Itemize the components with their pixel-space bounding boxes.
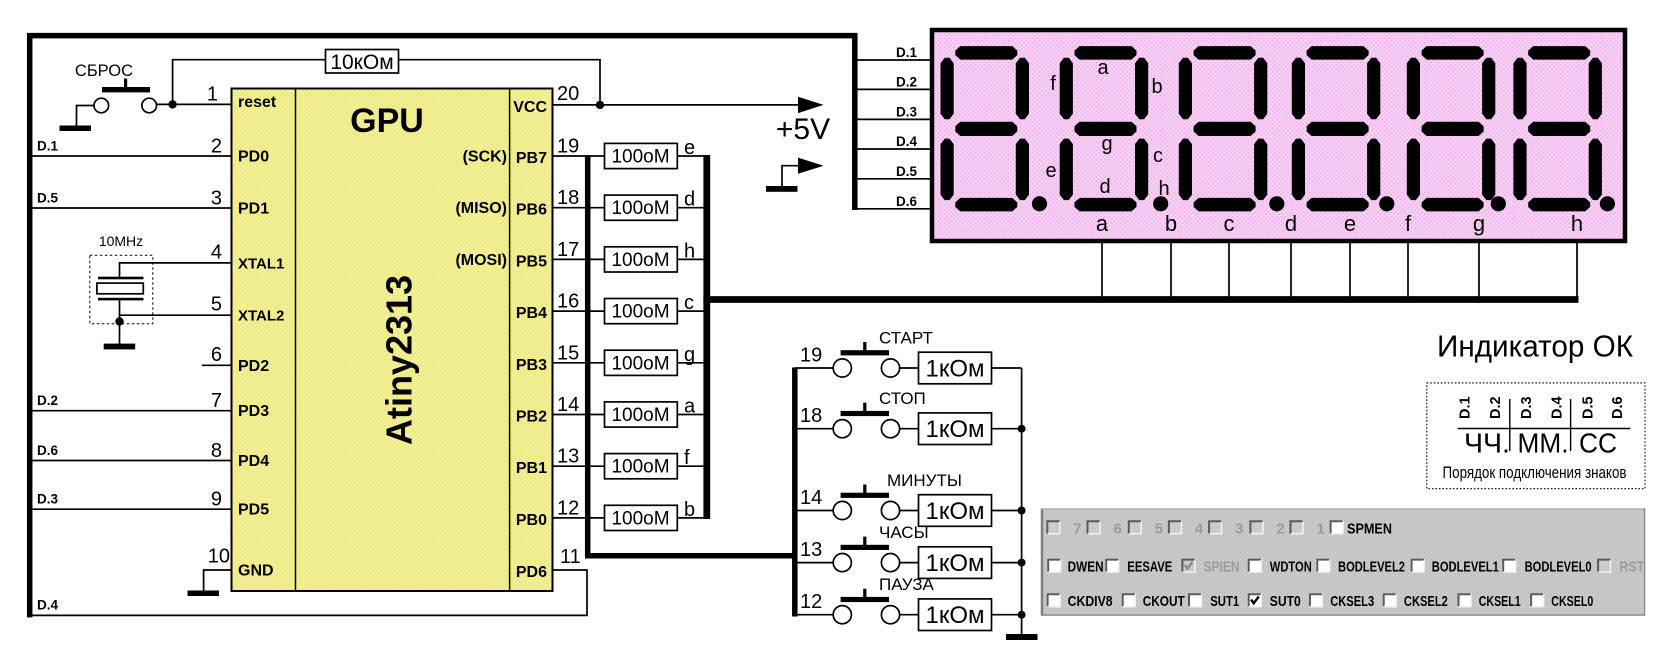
pin number 12 (557, 497, 579, 519)
label display D.1 (896, 45, 918, 60)
wire resistor СТОП to common (992, 428, 1022, 430)
svg-text:15: 15 (557, 342, 579, 364)
pushbutton ЧАСЫ bar (841, 537, 889, 550)
svg-text:WDTON: WDTON (1270, 559, 1312, 576)
label segment h digit2 (1158, 178, 1169, 200)
checkbox SUT1 (1188, 593, 1239, 610)
pin name PB1 (516, 460, 547, 477)
svg-text:c: c (1224, 211, 1235, 236)
svg-text:D.5: D.5 (37, 191, 59, 206)
svg-text:Индикатор ОК: Индикатор ОК (1437, 330, 1633, 364)
svg-text:D.3: D.3 (896, 104, 918, 119)
wire display pin d (1290, 243, 1292, 300)
svg-text:3: 3 (211, 188, 222, 210)
wire display pin a (1101, 243, 1103, 300)
wire bus to button ПАУЗА (795, 614, 834, 616)
svg-text:7: 7 (211, 390, 222, 412)
svg-text:PB1: PB1 (516, 460, 547, 477)
svg-text:19: 19 (557, 136, 579, 158)
checkbox fuse bit 3 (disabled) (1208, 520, 1243, 537)
svg-text:(MOSI): (MOSI) (455, 252, 507, 269)
svg-text:ЧЧ.: ЧЧ. (1464, 428, 1510, 459)
svg-text:CKSEL2: CKSEL2 (1404, 593, 1448, 610)
svg-text:16: 16 (557, 291, 579, 313)
checkbox EESAVE (1105, 559, 1172, 576)
svg-text:D.1: D.1 (37, 139, 59, 154)
wire net D.6 (31, 460, 232, 462)
svg-text:h: h (1571, 211, 1583, 236)
label net D.5 (37, 191, 59, 206)
label display D.3 (896, 104, 918, 119)
wire resistor pin16 to segment bus (677, 310, 707, 312)
wire display input D.5 (855, 178, 930, 180)
svg-text:СТОП: СТОП (879, 389, 926, 408)
svg-text:SPIEN: SPIEN (1204, 559, 1240, 576)
label display pin a (1096, 211, 1109, 236)
ground below crystal (104, 344, 136, 350)
pin number 3 (211, 188, 222, 210)
pin number 14 (557, 394, 579, 416)
wire net D.3 (31, 508, 232, 510)
fuse panel background (1041, 508, 1645, 615)
junction node СТОП common (1018, 425, 1026, 433)
svg-text:GND: GND (238, 563, 274, 580)
pin number 12 button (800, 591, 822, 613)
display digit 5 (1407, 46, 1506, 211)
pushbutton СТАРТ left contact (833, 359, 851, 377)
wire pin13 to resistor (553, 465, 605, 467)
svg-text:2: 2 (1276, 520, 1284, 537)
svg-text:1: 1 (1317, 520, 1325, 537)
pin name reset (238, 94, 277, 111)
wire buttons left bus (792, 368, 798, 617)
label segment g digit2 (1101, 133, 1112, 155)
svg-text:100оМ: 100оМ (611, 457, 669, 478)
pin number 13 button (800, 539, 822, 561)
pin name VCC (513, 99, 547, 116)
table vertical dividers (1510, 399, 1571, 451)
svg-text:d: d (1099, 176, 1110, 198)
label display pin g (1473, 211, 1485, 236)
svg-text:f: f (1050, 73, 1056, 95)
svg-text:10кОм: 10кОм (330, 51, 393, 74)
svg-text:BODLEVEL2: BODLEVEL2 (1338, 559, 1405, 576)
pin number 9 (211, 489, 222, 511)
wire resistor pin13 to segment bus (677, 465, 707, 467)
wire button МИНУТЫ to resistor (900, 510, 919, 512)
display digit 1 (941, 46, 1048, 211)
power return arrow symbol (782, 158, 824, 187)
wire bus to button МИНУТЫ (795, 510, 834, 512)
svg-text:12: 12 (800, 591, 822, 613)
pin number 15 (557, 342, 579, 364)
svg-text:CKDIV8: CKDIV8 (1068, 593, 1113, 610)
crystal dashed outline (90, 255, 153, 324)
label table D.1 (1457, 396, 1473, 419)
svg-text:a: a (684, 396, 696, 418)
svg-text:ММ.: ММ. (1518, 428, 1569, 459)
svg-text:1кОм: 1кОм (925, 602, 984, 629)
svg-text:4: 4 (1195, 520, 1204, 537)
svg-text:PB0: PB0 (516, 512, 547, 529)
svg-text:19: 19 (800, 345, 822, 367)
checkbox SUT0 (1248, 593, 1301, 610)
svg-text:D.3: D.3 (1519, 396, 1535, 419)
pushbutton СТОП bar (841, 403, 889, 416)
svg-text:D.2: D.2 (896, 74, 917, 89)
label display pin d (1285, 211, 1297, 236)
label button МИНУТЫ (887, 471, 962, 490)
svg-text:12: 12 (557, 497, 579, 519)
wire pin14 to resistor (553, 414, 605, 416)
pin name PB3 (516, 357, 547, 374)
pin number 4 (211, 242, 222, 264)
checkbox RSTDISBL (1597, 559, 1674, 576)
svg-text:d: d (1285, 211, 1297, 236)
junction node МИНУТЫ common (1018, 507, 1026, 515)
resistor 100oM pin19 (605, 143, 678, 168)
pin name PB0 (516, 512, 547, 529)
svg-text:13: 13 (557, 446, 579, 468)
svg-text:14: 14 (557, 394, 579, 416)
resistor 100oM pin12 (605, 505, 678, 530)
pin name PD1 (238, 201, 269, 218)
svg-text:4: 4 (211, 242, 222, 264)
label display D.6 (896, 194, 918, 209)
svg-text:CKSEL3: CKSEL3 (1330, 593, 1374, 610)
svg-text:PB3: PB3 (516, 357, 547, 374)
svg-text:18: 18 (800, 405, 822, 427)
svg-text:2: 2 (211, 136, 222, 158)
display HG1 body (932, 30, 1625, 241)
svg-text:D.1: D.1 (1457, 396, 1473, 419)
checkbox CKOUT (1122, 593, 1185, 610)
svg-text:BODLEVEL0: BODLEVEL0 (1525, 559, 1592, 576)
svg-text:1кОм: 1кОм (925, 356, 984, 383)
checkbox fuse bit 6 (disabled) (1087, 520, 1122, 537)
svg-text:МИНУТЫ: МИНУТЫ (887, 471, 962, 490)
svg-text:a: a (1096, 211, 1109, 236)
svg-text:17: 17 (557, 239, 579, 261)
svg-text:PD2: PD2 (238, 358, 269, 375)
wire pin5 XTAL2 (120, 300, 232, 343)
wire display input D.1 (855, 59, 930, 61)
svg-text:g: g (1473, 211, 1485, 236)
svg-text:11: 11 (560, 546, 581, 568)
svg-text:СБРОС: СБРОС (75, 62, 133, 80)
label GPU (350, 102, 424, 140)
pin number 5 (211, 294, 222, 316)
label segment c (684, 292, 694, 314)
resistor 100oM pin15 (605, 350, 678, 375)
crystal top plate (98, 277, 144, 280)
wire pin4 XTAL1 (120, 263, 232, 277)
checkbox BODLEVEL1 (1411, 559, 1499, 576)
svg-text:СТАРТ: СТАРТ (879, 329, 933, 348)
label table D.4 (1550, 396, 1566, 419)
pin number 7 (211, 390, 222, 412)
svg-text:D.2: D.2 (1488, 396, 1504, 419)
resistor 1kOm СТАРТ (919, 352, 992, 384)
ground buttons common (1006, 634, 1038, 640)
svg-text:D.3: D.3 (37, 492, 59, 507)
svg-text:D.6: D.6 (1610, 396, 1626, 419)
label segment d (684, 189, 695, 211)
label segment h (684, 240, 695, 262)
display digit 4 (1292, 46, 1395, 211)
svg-text:e: e (1344, 211, 1356, 236)
pin name PB6 (516, 202, 547, 219)
wire button СТОП to resistor (900, 428, 919, 430)
svg-text:g: g (1101, 133, 1112, 155)
pushbutton МИНУТЫ bar (841, 485, 889, 498)
svg-text:b: b (1151, 76, 1162, 98)
wire pin1 reset net (157, 103, 232, 105)
checkbox SPMEN (1330, 520, 1392, 537)
display digit 2 (1060, 46, 1169, 211)
pushbutton SB-reset left contact (94, 98, 109, 113)
svg-text:D.1: D.1 (896, 45, 918, 60)
svg-text:СС: СС (1579, 428, 1617, 459)
pin name XTAL2 (238, 308, 284, 325)
wire display pin e (1349, 243, 1351, 300)
svg-text:XTAL1: XTAL1 (238, 255, 284, 272)
pin number 17 (557, 239, 579, 261)
svg-text:D.4: D.4 (896, 134, 918, 149)
label segment a digit2 (1097, 57, 1109, 79)
wire display pin g (1478, 243, 1480, 300)
wire pin17 to resistor (553, 258, 605, 260)
svg-text:PB7: PB7 (516, 150, 547, 167)
pin number 20 (557, 83, 579, 105)
checkbox fuse bit 1 (disabled) (1290, 520, 1325, 537)
svg-text:h: h (684, 240, 695, 262)
wire 10kOm left leg (173, 60, 326, 105)
crystal bottom plate (98, 298, 144, 301)
junction node crystal/ground (115, 317, 123, 325)
pin number 19 (557, 136, 579, 158)
wire pin6 PD2 stub (202, 364, 232, 366)
label display D.5 (896, 164, 918, 179)
wire resistor ЧАСЫ to common (992, 562, 1022, 564)
label segment a (684, 396, 696, 418)
svg-text:D.4: D.4 (37, 598, 59, 613)
resistor 1kOm СТОП (919, 413, 992, 445)
svg-text:e: e (1045, 160, 1056, 182)
label button СТАРТ (879, 329, 933, 348)
svg-text:13: 13 (800, 539, 822, 561)
svg-text:6: 6 (211, 344, 222, 366)
svg-text:c: c (1153, 145, 1163, 167)
resistor 100oM pin18 (605, 195, 678, 220)
pin name PD0 (238, 149, 269, 166)
svg-text:100оМ: 100оМ (611, 353, 669, 374)
svg-text:10MHz: 10MHz (99, 233, 143, 249)
junction node reset/10k (168, 100, 176, 108)
label net D.2 (37, 393, 58, 408)
checkbox CKSEL3 (1309, 593, 1374, 610)
pin number 18 button (800, 405, 822, 427)
wire display pin c (1228, 243, 1230, 300)
wire pin19 to resistor (553, 155, 605, 157)
svg-text:8: 8 (211, 440, 222, 462)
label Индикатор ОК (1437, 330, 1633, 364)
pushbutton ЧАСЫ left contact (833, 554, 851, 572)
display digit 3 (1179, 46, 1285, 211)
label net D.4 (37, 598, 59, 613)
svg-text:a: a (1097, 57, 1109, 79)
indicator table dashed box (1427, 383, 1645, 489)
svg-text:D.2: D.2 (37, 393, 58, 408)
svg-text:PD6: PD6 (516, 564, 547, 581)
pushbutton ПАУЗА right contact (881, 606, 899, 624)
svg-text:h: h (1158, 178, 1169, 200)
pin name GND (238, 563, 274, 580)
wire display input D.3 (855, 118, 930, 120)
svg-text:CKOUT: CKOUT (1143, 593, 1185, 610)
wire main D-bus frame (left/top/right-of-display) (30, 36, 855, 618)
wire display pin f (1407, 243, 1409, 300)
checkbox fuse bit 5 (disabled) (1128, 520, 1163, 537)
wire pin18 to resistor (553, 207, 605, 209)
checkbox WDTON (1248, 559, 1312, 576)
junction node ПАУЗА common (1018, 611, 1026, 619)
svg-text:D.5: D.5 (1581, 396, 1597, 419)
svg-text:PB6: PB6 (516, 202, 547, 219)
svg-text:1кОм: 1кОм (925, 416, 984, 443)
wire display input D.2 (855, 88, 930, 90)
svg-text:ПАУЗА: ПАУЗА (879, 575, 935, 594)
pushbutton ПАУЗА left contact (833, 606, 851, 624)
pushbutton МИНУТЫ right contact (881, 501, 899, 519)
label display pin c (1224, 211, 1235, 236)
wire display pin b (1170, 243, 1172, 300)
svg-text:PD3: PD3 (238, 403, 269, 420)
pin name PB2 (516, 409, 547, 426)
label Порядок подключения знаков (1443, 464, 1627, 482)
label table D.3 (1519, 396, 1535, 419)
label segment c digit2 (1153, 145, 1163, 167)
wire resistor СТАРТ to common (992, 367, 1022, 369)
wire button ЧАСЫ to resistor (900, 562, 919, 564)
svg-text:SPMEN: SPMEN (1347, 520, 1392, 537)
svg-text:PB2: PB2 (516, 409, 547, 426)
svg-text:XTAL2: XTAL2 (238, 308, 284, 325)
label ЧЧ. (1464, 428, 1510, 459)
label segment e (684, 137, 695, 159)
svg-text:d: d (684, 189, 695, 211)
label net D.6 (37, 443, 59, 458)
wire bus to button ЧАСЫ (795, 562, 834, 564)
pin name PD4 (238, 453, 269, 470)
pin name XTAL1 (238, 255, 284, 272)
pin number 6 (211, 344, 222, 366)
pin number 8 (211, 440, 222, 462)
svg-text:b: b (1165, 211, 1177, 236)
resistor 1kOm ЧАСЫ (919, 547, 992, 579)
wire segment bus vertical (703, 155, 710, 519)
wire net D.5 (31, 207, 232, 209)
svg-text:g: g (684, 344, 695, 366)
pin name PB7 (516, 150, 547, 167)
wire pin10 GND (204, 570, 232, 591)
label net D.1 (37, 139, 59, 154)
label display pin h (1571, 211, 1583, 236)
svg-text:SUT1: SUT1 (1210, 593, 1239, 610)
pin number 18 (557, 187, 579, 209)
wire resistor pin19 to segment bus (677, 155, 707, 157)
power arrow +5V (798, 97, 824, 113)
label segment b digit2 (1151, 76, 1162, 98)
pushbutton ПАУЗА bar (841, 589, 889, 602)
wire bus to button СТОП (795, 428, 834, 430)
svg-text:10: 10 (208, 546, 230, 568)
pin number 19 button (800, 345, 822, 367)
op IC U1 Atiny2313 body (232, 89, 553, 592)
svg-text:Порядок подключения знаков: Порядок подключения знаков (1443, 464, 1627, 482)
checkbox fuse bit 2 (disabled) (1249, 520, 1284, 537)
wire resistor pin18 to segment bus (677, 207, 707, 209)
pushbutton SB-reset right contact (142, 98, 157, 113)
label display D.2 (896, 74, 917, 89)
svg-text:100оМ: 100оМ (611, 508, 669, 529)
wire resistor pin12 to segment bus (677, 517, 707, 519)
resistor 100oM pin17 (605, 247, 678, 272)
svg-text:1: 1 (207, 84, 218, 106)
wire resistor МИНУТЫ to common (992, 510, 1022, 512)
svg-text:PB4: PB4 (516, 305, 547, 322)
display digit 6 (1513, 46, 1615, 211)
svg-text:ЧАСЫ: ЧАСЫ (879, 523, 929, 542)
junction node ЧАСЫ common (1018, 559, 1026, 567)
pin number 14 button (800, 487, 822, 509)
wire reset button to ground (77, 106, 95, 127)
wire net D.4 to pin11 PD6 (31, 570, 587, 615)
ground below reset button (60, 126, 92, 132)
resistor 100oM pin16 (605, 299, 678, 324)
pin name PB4 (516, 305, 547, 322)
wire pin16 to resistor (553, 310, 605, 312)
label display pin e (1344, 211, 1356, 236)
wire buttons right common (1021, 368, 1023, 635)
checkbox CKSEL2 (1383, 593, 1448, 610)
pin function (MISO) (455, 200, 507, 217)
pushbutton ЧАСЫ right contact (881, 554, 899, 572)
pin number 16 (557, 291, 579, 313)
resistor 100oM pin13 (605, 454, 678, 479)
svg-text:D.5: D.5 (896, 164, 918, 179)
panel clip right (1645, 505, 1674, 620)
pin name PD2 (238, 358, 269, 375)
svg-text:D.4: D.4 (1550, 396, 1566, 419)
label button ЧАСЫ (879, 523, 929, 542)
ground at +5V return (766, 186, 798, 192)
checkbox fuse bit 7 (disabled) (1046, 520, 1081, 537)
svg-text:CKSEL0: CKSEL0 (1551, 593, 1593, 610)
svg-text:(MISO): (MISO) (455, 200, 507, 217)
svg-text:reset: reset (238, 94, 277, 111)
svg-text:e: e (684, 137, 695, 159)
label display pin b (1165, 211, 1177, 236)
wire resistor pin15 to segment bus (677, 362, 707, 364)
label ММ. (1518, 428, 1569, 459)
svg-text:b: b (684, 499, 695, 521)
svg-text:f: f (1405, 211, 1412, 236)
pin number 1 (207, 84, 218, 106)
label display pin f (1405, 211, 1412, 236)
svg-text:c: c (684, 292, 694, 314)
label segment f digit2 (1050, 73, 1056, 95)
